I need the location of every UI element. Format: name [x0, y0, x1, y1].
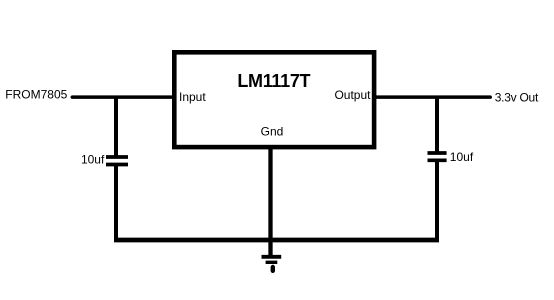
IC U1 LM1117T body	[174, 52, 374, 147]
capacitor C1	[106, 157, 128, 165]
wire C1 top lead	[114, 96, 118, 156]
svg-text:Output: Output	[334, 88, 371, 102]
svg-text:10uf: 10uf	[450, 150, 474, 164]
wire output	[374, 95, 490, 99]
wire C2 top lead	[435, 96, 439, 152]
wire gnd leg	[268, 147, 272, 256]
svg-text:Input: Input	[179, 90, 206, 104]
wire C2 bottom lead	[435, 162, 439, 241]
svg-text:3.3v Out: 3.3v Out	[495, 90, 539, 104]
svg-text:Gnd: Gnd	[261, 125, 284, 139]
wire C1 bottom lead	[114, 166, 118, 240]
ground	[262, 257, 282, 271]
wire input	[72, 95, 174, 99]
wire ground bus	[114, 238, 439, 243]
svg-text:FROM7805: FROM7805	[5, 88, 67, 102]
svg-text:10uf: 10uf	[81, 153, 105, 167]
svg-text:LM1117T: LM1117T	[237, 71, 310, 91]
capacitor C2	[428, 153, 447, 160]
